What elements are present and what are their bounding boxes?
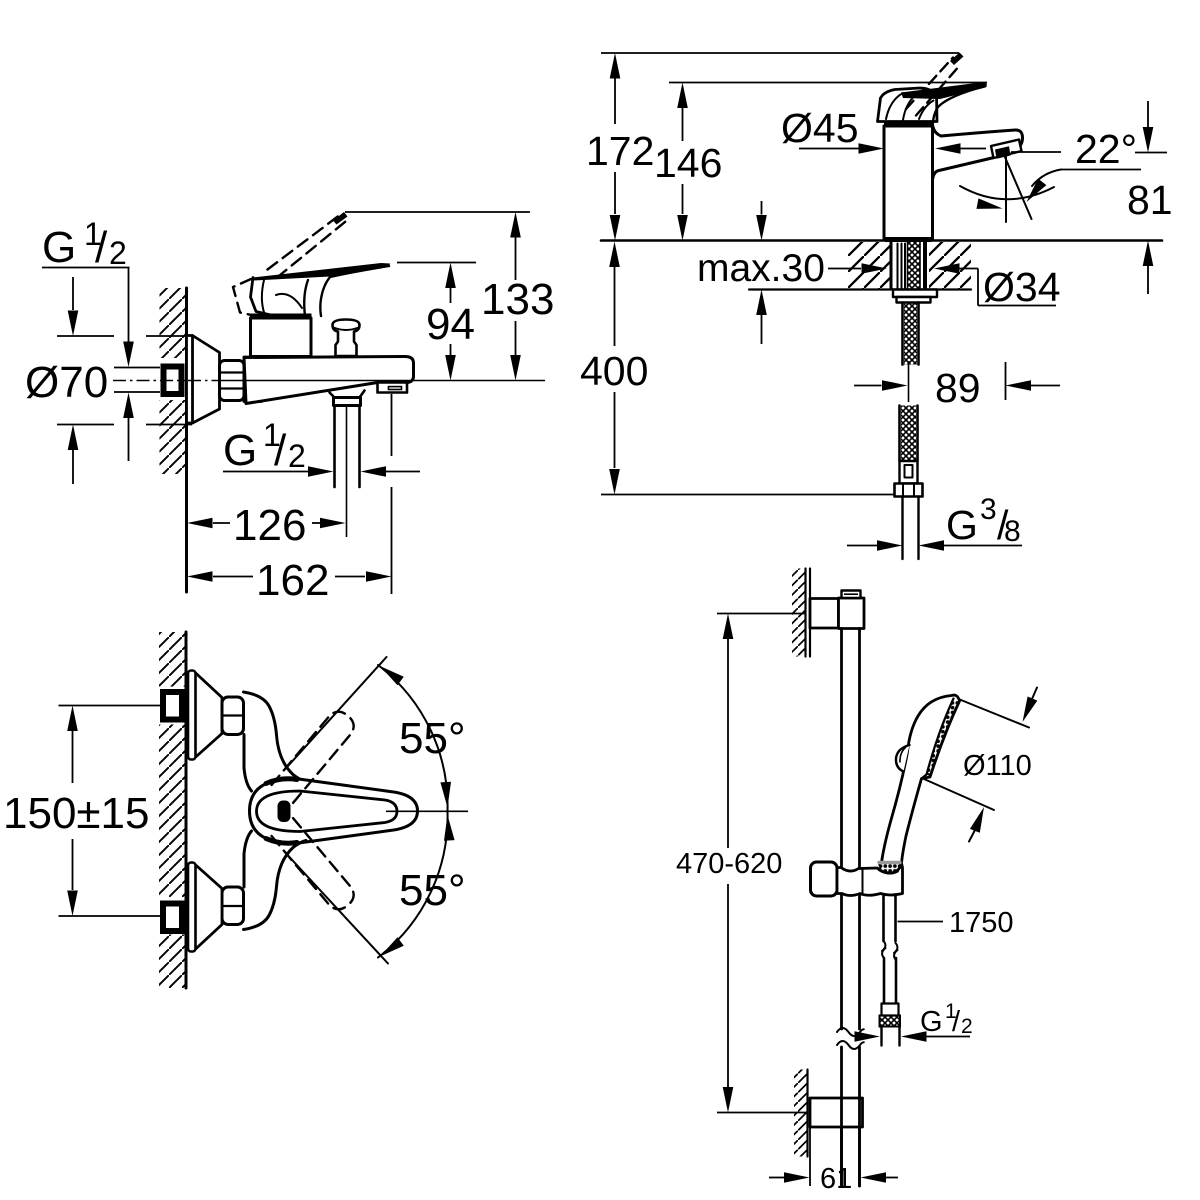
svg-text:94: 94 — [426, 300, 475, 349]
outlet pipe walls — [335, 406, 360, 488]
wall line — [185, 288, 188, 592]
svg-text:172: 172 — [586, 128, 654, 174]
hand shower head and handle body — [882, 695, 960, 862]
upper hex nut — [222, 697, 244, 735]
upper wall hatch — [792, 569, 806, 657]
aerator — [378, 383, 408, 393]
lever handle (solid) — [253, 263, 390, 281]
label G 3/8 — [946, 493, 1021, 548]
label 1750 leader — [898, 921, 944, 923]
svg-text:55°: 55° — [399, 866, 466, 915]
dimension 133 — [510, 212, 521, 238]
dimension G 3/8 — [847, 545, 877, 547]
svg-text:max.30: max.30 — [697, 247, 825, 290]
extension line upper union — [59, 705, 161, 707]
threaded shank below deck — [890, 242, 893, 289]
dimension 61 — [769, 1177, 784, 1179]
diameter 34 leader arrow — [934, 263, 960, 274]
deck underside line — [749, 288, 971, 290]
control button — [896, 745, 910, 772]
dimension 81 — [1147, 101, 1149, 127]
hose nut G 1/2 — [880, 1016, 901, 1027]
cartridge housing — [251, 318, 312, 357]
label G 1/2 (hose) — [920, 1000, 973, 1038]
top wall bracket — [810, 599, 839, 629]
wall hatch (top-left view) — [160, 288, 187, 358]
reference line lever top — [345, 211, 530, 213]
shower rail lower — [842, 1047, 860, 1186]
svg-text:162: 162 — [256, 556, 329, 605]
horizontal centerline — [386, 810, 468, 812]
S-union cone — [244, 357, 262, 402]
dimension 400 — [609, 242, 620, 268]
spray face band — [927, 699, 959, 777]
bottom wall bracket — [810, 1098, 863, 1127]
svg-text:81: 81 — [1127, 177, 1173, 223]
reference line faucet max height 172 — [601, 52, 959, 54]
svg-text:Ø70: Ø70 — [25, 358, 108, 407]
svg-text:G: G — [946, 502, 978, 548]
escutcheon cone — [187, 336, 220, 424]
label G 1/2 (outlet thread) — [223, 417, 306, 475]
lower wall line — [806, 1070, 808, 1157]
wall line — [185, 632, 188, 988]
svg-text:G: G — [42, 223, 76, 272]
mixer body upper arm — [244, 692, 307, 782]
upper escutcheon cone — [194, 672, 222, 759]
hose tail — [882, 1027, 900, 1046]
svg-text:Ø34: Ø34 — [983, 264, 1061, 310]
svg-text:2: 2 — [288, 438, 306, 474]
svg-text:470-620: 470-620 — [676, 848, 782, 880]
svg-text:400: 400 — [580, 348, 648, 394]
svg-text:8: 8 — [1004, 515, 1021, 548]
basin mixer lever arm — [901, 82, 987, 99]
dimension 150 plus-minus 15 — [67, 706, 78, 732]
dashed lever arm raised — [268, 213, 344, 270]
mixer body spout (side) — [244, 357, 414, 404]
lever root shading — [266, 779, 297, 784]
reference line hose end 400 — [601, 494, 895, 496]
diameter 45 arrow line right — [961, 148, 987, 150]
deck thickness arrows — [761, 201, 763, 215]
shower hose lower — [884, 958, 896, 1004]
angle ray lower 55 deg — [288, 856, 388, 964]
dimension diameter 70 arrows — [72, 277, 74, 310]
centerline pipe axis (through fixture) — [188, 380, 222, 382]
top rail holder and cap — [839, 598, 865, 629]
svg-text:Ø45: Ø45 — [781, 105, 859, 151]
G 1/2 pointer arrow up — [123, 393, 134, 419]
angle arc 55 deg — [378, 665, 448, 958]
label G 1/2 (wall union thread) — [42, 216, 127, 272]
svg-text:133: 133 — [481, 275, 554, 324]
svg-text:55°: 55° — [399, 714, 466, 763]
lever slot — [278, 801, 291, 823]
lever (front view) — [250, 779, 418, 844]
mixer body lower arm — [244, 841, 307, 930]
22 deg underline and leader — [1061, 169, 1141, 171]
dimension 172 — [610, 53, 621, 79]
reference line spout top 94 — [397, 262, 476, 264]
slider holder knob — [811, 862, 838, 896]
extension line top bracket — [717, 613, 806, 615]
svg-text:61: 61 — [820, 1163, 852, 1195]
svg-text:3: 3 — [980, 493, 997, 526]
dimension diameter 110 upper tangent — [959, 699, 1030, 728]
centerline pipe axis (left dash-dot part) — [113, 380, 188, 382]
svg-text:126: 126 — [233, 501, 306, 550]
counter deck line — [601, 239, 1162, 242]
hose ferrule — [882, 1004, 899, 1016]
outlet centerline — [346, 406, 348, 537]
dimension 470-620 — [723, 614, 734, 640]
extension line 61 — [809, 1127, 811, 1186]
dimension 94 — [445, 263, 456, 289]
svg-text:22°: 22° — [1075, 126, 1137, 172]
spout outlet level line — [1135, 152, 1167, 154]
dimension G 1/2 outlet — [223, 471, 308, 473]
extension line lower union — [59, 915, 161, 917]
svg-text:1750: 1750 — [949, 907, 1014, 939]
shower outlet stub — [330, 391, 365, 398]
supply hose upper — [904, 303, 917, 365]
rail break symbol — [837, 1028, 864, 1036]
mounting flange — [893, 290, 937, 298]
svg-text:G: G — [223, 426, 257, 475]
lower escutcheon cone — [194, 864, 222, 951]
handle body — [251, 278, 307, 318]
shower rail upper — [842, 629, 860, 1030]
basin mixer body — [884, 126, 933, 239]
angle ray upper 55 deg — [288, 657, 387, 766]
slider holder body — [837, 864, 903, 896]
basin mixer handle body — [878, 88, 938, 122]
dimension 146 — [677, 83, 688, 109]
svg-text:Ø110: Ø110 — [963, 750, 1032, 782]
dashed lever rotated up — [272, 707, 359, 803]
deck hatch — [848, 242, 890, 289]
shower hose upper — [884, 895, 896, 942]
lower square union — [163, 904, 182, 932]
hex union nut — [220, 361, 245, 401]
upper wall double line — [806, 569, 811, 657]
lever handle raised (dashed) — [233, 279, 258, 317]
svg-text:2: 2 — [109, 235, 127, 271]
leader line under G 1/2 — [42, 267, 130, 269]
upper square union — [163, 692, 182, 720]
dashed raised lever — [906, 58, 953, 110]
diverter knob — [333, 320, 360, 357]
dashed lever rotated down — [272, 818, 359, 914]
dimension G 1/2 hose — [859, 1036, 863, 1038]
dimension 89 — [854, 385, 882, 387]
spout — [933, 125, 1023, 181]
dimension 126 — [187, 518, 213, 529]
hose connector — [900, 461, 918, 484]
dimension 162 — [187, 571, 213, 582]
svg-text:150±15: 150±15 — [3, 789, 150, 838]
supply hose lower — [901, 406, 916, 462]
aerator level line — [1011, 151, 1061, 153]
outlet collar — [334, 398, 361, 406]
svg-text:89: 89 — [935, 365, 981, 411]
angle arc 22 deg — [960, 186, 1054, 199]
extension line diameter 70 top — [57, 335, 192, 337]
water stream vertical line — [1005, 156, 1007, 223]
svg-text:/: / — [952, 1006, 961, 1038]
hose centerline — [908, 361, 910, 402]
svg-text:/: / — [274, 426, 287, 475]
thread extent lines to square union — [114, 368, 160, 393]
extension line diameter 70 bottom — [57, 424, 192, 426]
spout aerator — [991, 140, 1022, 159]
lower wall hatch — [794, 1070, 808, 1157]
G 1/2 pointer arrow down — [128, 268, 130, 343]
dimension diameter 110 lower tangent — [924, 779, 994, 810]
extension line bottom bracket — [717, 1112, 808, 1114]
cartridge cap black band — [250, 314, 312, 320]
hose hex nut — [895, 484, 923, 497]
wall hatch (front view) — [159, 632, 186, 687]
hose tail below nut — [903, 497, 919, 560]
svg-text:2: 2 — [961, 1015, 973, 1038]
water stream angled line 22 deg — [1005, 156, 1032, 219]
shower handle end cone — [879, 863, 902, 874]
square wall union fitting — [164, 367, 182, 395]
max.30 leader arrow — [828, 268, 861, 270]
svg-text:146: 146 — [654, 140, 722, 186]
extension line spout outlet — [391, 394, 393, 594]
reference line lever top 146 — [669, 82, 987, 84]
lower hex nut — [222, 887, 244, 925]
svg-text:/: / — [95, 223, 108, 272]
